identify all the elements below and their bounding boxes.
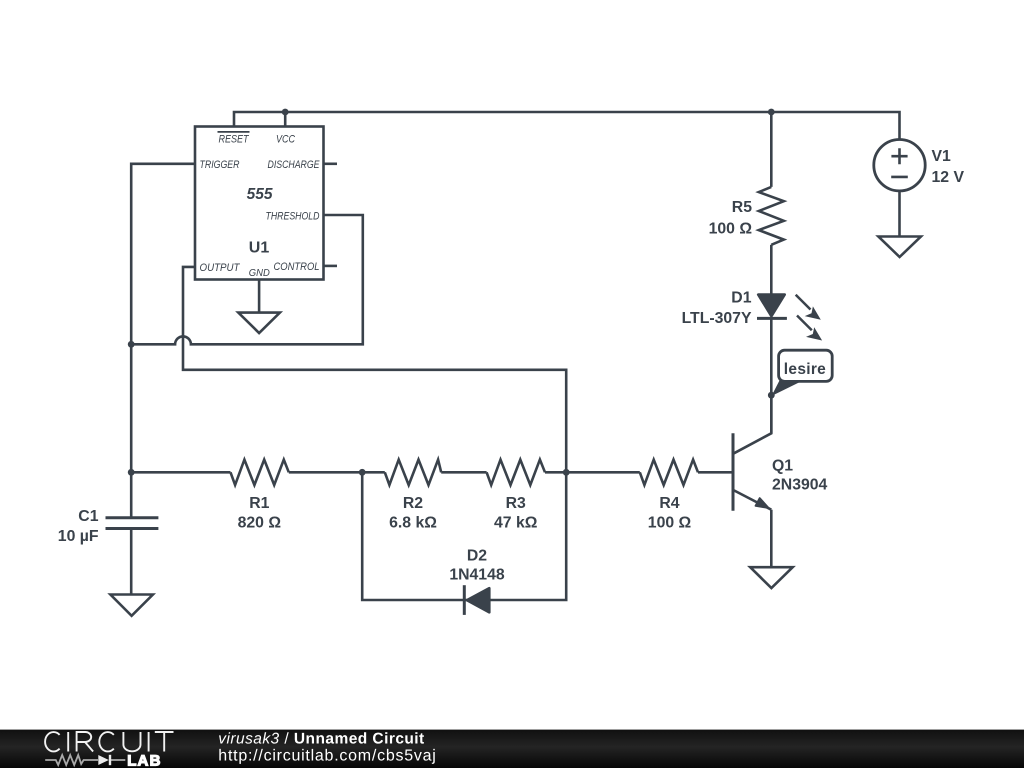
svg-text:R5: R5 xyxy=(732,199,752,216)
svg-text:V1: V1 xyxy=(932,148,952,165)
svg-text:R3: R3 xyxy=(506,495,526,512)
svg-text:555: 555 xyxy=(247,186,273,203)
svg-text:R1: R1 xyxy=(249,495,269,512)
svg-text:10 µF: 10 µF xyxy=(58,528,99,545)
svg-text:R4: R4 xyxy=(659,495,679,512)
svg-text:VCC: VCC xyxy=(276,133,295,145)
svg-text:LAB: LAB xyxy=(127,752,161,768)
svg-text:820 Ω: 820 Ω xyxy=(238,515,282,532)
svg-text:C1: C1 xyxy=(78,508,98,525)
svg-text:DISCHARGE: DISCHARGE xyxy=(268,159,321,171)
svg-text:CONTROL: CONTROL xyxy=(274,261,320,273)
svg-text:lesire: lesire xyxy=(784,361,826,378)
svg-text:R2: R2 xyxy=(403,495,423,512)
svg-text:LTL-307Y: LTL-307Y xyxy=(682,310,752,327)
svg-text:2N3904: 2N3904 xyxy=(772,477,828,494)
svg-text:100 Ω: 100 Ω xyxy=(709,220,753,237)
svg-text:TRIGGER: TRIGGER xyxy=(200,159,240,171)
svg-text:12 V: 12 V xyxy=(932,169,965,186)
svg-text:6.8 kΩ: 6.8 kΩ xyxy=(389,515,437,532)
svg-text:OUTPUT: OUTPUT xyxy=(200,262,241,274)
svg-text:D1: D1 xyxy=(731,290,751,307)
svg-text:U1: U1 xyxy=(249,240,270,257)
svg-text:http://circuitlab.com/cbs5vaj: http://circuitlab.com/cbs5vaj xyxy=(218,747,436,764)
svg-text:47 kΩ: 47 kΩ xyxy=(494,515,538,532)
svg-text:THRESHOLD: THRESHOLD xyxy=(266,210,320,222)
svg-text:1N4148: 1N4148 xyxy=(449,567,505,584)
svg-text:D2: D2 xyxy=(467,548,487,565)
svg-text:GND: GND xyxy=(249,267,270,279)
svg-text:100 Ω: 100 Ω xyxy=(648,515,692,532)
svg-text:Q1: Q1 xyxy=(772,458,793,475)
svg-text:RESET: RESET xyxy=(219,133,250,145)
svg-text:virusak3 / Unnamed Circuit: virusak3 / Unnamed Circuit xyxy=(218,730,424,747)
